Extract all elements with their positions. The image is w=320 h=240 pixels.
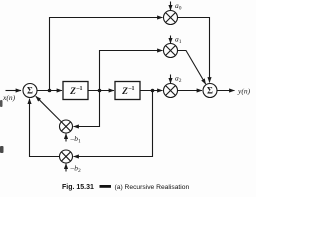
coefficient arrow a1 <box>170 36 172 44</box>
svg-text:Σ: Σ <box>27 86 33 96</box>
multiplier M1 (a1) <box>164 44 178 58</box>
svg-text:Fig. 15.31: Fig. 15.31 <box>62 184 94 191</box>
svg-text:a0: a0 <box>175 1 182 12</box>
svg-text:–b1: –b1 <box>70 134 82 145</box>
svg-text:x(n): x(n) <box>2 93 16 102</box>
node C junction <box>151 89 155 93</box>
svg-text:Σ: Σ <box>207 86 213 96</box>
coefficient arrow -b2 <box>65 164 67 172</box>
node B junction <box>98 89 102 93</box>
svg-text:–1: –1 <box>76 86 83 92</box>
wire M0 to U2 <box>178 18 210 83</box>
wire Z1 to Z2 <box>88 90 114 92</box>
wire M4 to U1 <box>30 99 60 157</box>
svg-text:–1: –1 <box>128 86 135 92</box>
wire Z2 to M2 <box>140 90 163 92</box>
coefficient arrow a0 <box>170 2 172 11</box>
wire node B to multiplier M1 (middle rail) <box>100 51 163 91</box>
delay Z1 <box>63 82 88 100</box>
scan smudge left 2 <box>0 146 4 153</box>
scan smudge left 1 <box>0 100 3 107</box>
multiplier M3 (-b1) <box>60 120 73 133</box>
adder U2 (output summer) <box>203 84 217 98</box>
multiplier M4 (-b2) <box>60 150 73 163</box>
adder U1 (input summer) <box>23 84 37 98</box>
multiplier M0 (a0) <box>164 11 178 25</box>
delay Z2 <box>115 82 140 100</box>
caption Fig. 15.31 <box>62 184 189 191</box>
wire U1 to Z1 <box>37 90 62 92</box>
svg-text:–b2: –b2 <box>70 164 82 175</box>
input arrow x(n) <box>6 90 22 92</box>
wire node B to multiplier M3 (feedback 1) <box>74 91 100 127</box>
wire M3 to U1 (diagonal) <box>36 96 62 122</box>
multiplier M2 (a2) <box>164 84 178 98</box>
wire node A to multiplier M0 (top rail) <box>50 18 163 91</box>
wire M2 to U2 <box>178 90 203 92</box>
svg-text:Z: Z <box>69 87 76 97</box>
svg-text:a2: a2 <box>175 74 182 85</box>
node A junction <box>48 89 52 93</box>
svg-text:a1: a1 <box>175 35 182 46</box>
coefficient arrow -b1 <box>65 134 67 142</box>
svg-text:y(n): y(n) <box>237 87 251 96</box>
output arrow y(n) <box>217 90 235 92</box>
svg-text:(a) Recursive Realisation: (a) Recursive Realisation <box>115 184 190 191</box>
wire node C to multiplier M4 (feedback 2) <box>74 91 153 157</box>
svg-text:Z: Z <box>121 87 128 97</box>
wire M1 to U2 (diagonal) <box>178 51 206 85</box>
coefficient arrow a2 <box>170 75 172 84</box>
